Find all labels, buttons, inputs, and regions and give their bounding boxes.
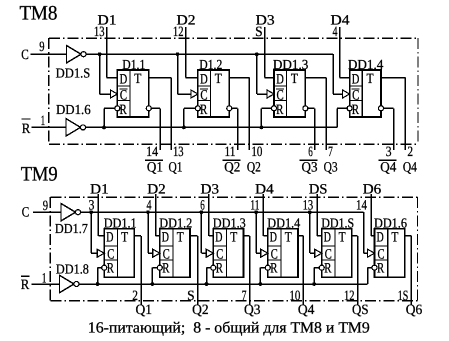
- svg-text:DD1.7: DD1.7: [55, 221, 88, 236]
- svg-text:Q1: Q1: [136, 302, 153, 318]
- svg-text:R: R: [162, 261, 170, 277]
- svg-text:DS: DS: [309, 181, 328, 197]
- svg-text:T: T: [291, 71, 298, 87]
- svg-text:R: R: [324, 261, 332, 277]
- svg-text:D: D: [270, 229, 277, 245]
- svg-text:14: 14: [356, 198, 367, 214]
- svg-text:R: R: [377, 261, 385, 277]
- svg-text:D3: D3: [201, 181, 220, 197]
- svg-text:16-питающий; 8 - общий для ТМ: 16-питающий; 8 - общий для ТМ8 и ТМ9: [88, 319, 370, 336]
- svg-text:DD1.S: DD1.S: [321, 216, 354, 231]
- svg-text:ТМ9: ТМ9: [21, 164, 58, 186]
- svg-text:DD1.6: DD1.6: [374, 216, 407, 231]
- svg-text:R: R: [21, 277, 30, 293]
- svg-text:DD1.4: DD1.4: [267, 216, 300, 231]
- svg-text:T: T: [121, 230, 128, 246]
- svg-text:C: C: [22, 205, 30, 221]
- svg-text:D: D: [324, 229, 331, 245]
- svg-text:Q1: Q1: [169, 160, 183, 176]
- svg-text:6: 6: [308, 144, 313, 160]
- svg-text:Q4: Q4: [380, 160, 396, 176]
- svg-text:D1: D1: [90, 181, 109, 197]
- svg-text:Q3: Q3: [324, 160, 338, 176]
- svg-text:R: R: [270, 261, 278, 277]
- svg-text:R: R: [120, 102, 128, 118]
- svg-text:D: D: [106, 229, 113, 245]
- svg-text:7: 7: [328, 144, 333, 160]
- svg-text:R: R: [216, 261, 224, 277]
- svg-text:D: D: [377, 229, 384, 245]
- svg-text:D: D: [120, 72, 128, 88]
- svg-text:DD1.3: DD1.3: [273, 57, 309, 72]
- svg-text:13: 13: [94, 24, 105, 40]
- svg-text:D4: D4: [255, 181, 274, 197]
- svg-text:QS: QS: [352, 302, 369, 318]
- svg-text:2: 2: [407, 144, 413, 160]
- svg-text:11: 11: [225, 144, 236, 160]
- svg-text:D2: D2: [147, 181, 166, 197]
- svg-text:14: 14: [146, 144, 158, 160]
- svg-text:R: R: [200, 102, 208, 118]
- svg-text:9: 9: [39, 39, 44, 55]
- svg-text:T: T: [134, 71, 141, 87]
- svg-text:D: D: [162, 229, 169, 245]
- svg-text:DD1.8: DD1.8: [56, 262, 89, 277]
- svg-text:T: T: [215, 71, 222, 87]
- svg-text:D: D: [215, 229, 222, 245]
- svg-text:Q1: Q1: [147, 160, 163, 176]
- svg-text:D6: D6: [363, 181, 382, 197]
- svg-text:D1.1: D1.1: [122, 57, 145, 72]
- svg-text:13: 13: [173, 144, 184, 160]
- svg-text:Q4: Q4: [298, 302, 315, 318]
- svg-text:R: R: [352, 102, 360, 118]
- svg-text:T: T: [339, 230, 346, 246]
- svg-text:T: T: [391, 230, 398, 246]
- svg-text:R: R: [22, 121, 31, 137]
- svg-text:D1.2: D1.2: [199, 57, 222, 72]
- svg-text:Q2: Q2: [247, 160, 261, 176]
- svg-text:T: T: [177, 230, 184, 246]
- svg-text:Q3: Q3: [244, 302, 261, 318]
- svg-text:Q2: Q2: [192, 302, 209, 318]
- svg-text:Q2: Q2: [224, 160, 240, 176]
- svg-text:12: 12: [173, 24, 184, 40]
- svg-text:DD1.2: DD1.2: [159, 216, 192, 231]
- svg-text:R: R: [107, 261, 115, 277]
- svg-text:10: 10: [251, 144, 262, 160]
- svg-text:3: 3: [386, 144, 392, 160]
- svg-text:Q6: Q6: [406, 302, 423, 318]
- svg-text:C: C: [21, 47, 29, 63]
- svg-text:DD1.6: DD1.6: [56, 102, 91, 117]
- svg-text:T: T: [285, 230, 292, 246]
- svg-text:DD1.4: DD1.4: [348, 57, 384, 72]
- svg-text:D: D: [352, 72, 360, 88]
- svg-text:1: 1: [41, 113, 46, 129]
- svg-text:DD1.3: DD1.3: [213, 216, 246, 231]
- svg-text:Q3: Q3: [302, 160, 318, 176]
- svg-text:13: 13: [303, 198, 314, 214]
- svg-text:R: R: [276, 102, 284, 118]
- svg-text:D: D: [276, 72, 284, 88]
- svg-text:T: T: [230, 230, 237, 246]
- svg-text:ТМ8: ТМ8: [20, 2, 58, 24]
- svg-text:DD1.1: DD1.1: [104, 216, 137, 231]
- svg-text:S: S: [255, 24, 263, 40]
- svg-text:Q4: Q4: [403, 160, 417, 176]
- svg-text:4: 4: [333, 24, 338, 40]
- svg-text:T: T: [367, 71, 374, 87]
- svg-text:DD1.S: DD1.S: [56, 66, 91, 81]
- svg-text:D: D: [200, 72, 208, 88]
